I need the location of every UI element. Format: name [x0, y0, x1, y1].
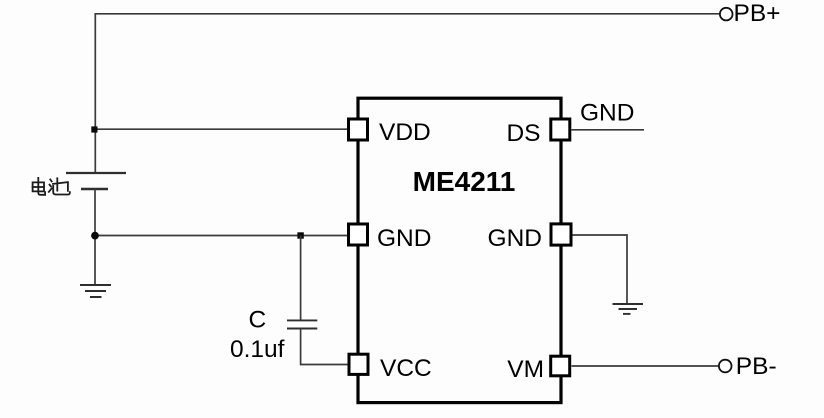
capacitor C 0.1uf plates — [287, 320, 317, 328]
svg-text:PB-: PB- — [736, 353, 777, 380]
ground symbol at right GND pin — [613, 304, 644, 314]
svg-text:VDD: VDD — [379, 119, 431, 146]
wire from capacitor to VCC pin — [301, 329, 348, 365]
wire battery - to ground — [94, 189, 96, 285]
svg-text:0.1uf: 0.1uf — [230, 336, 285, 363]
svg-text:DS: DS — [506, 120, 540, 147]
svg-text:GND: GND — [580, 100, 634, 127]
svg-text:GND: GND — [377, 225, 431, 252]
pin GND left (square pad) — [349, 224, 368, 245]
battery label 电池 (hand-drawn glyphs) — [33, 178, 70, 195]
svg-text:VCC: VCC — [380, 355, 432, 382]
terminal PB- (open circle) — [719, 360, 732, 373]
pin VM (square pad) — [551, 356, 570, 376]
wire from battery node to VDD pin — [95, 128, 347, 130]
ground symbol at battery — [80, 285, 111, 297]
wire top rail from battery+ to PB+ — [95, 13, 720, 15]
svg-text:GND: GND — [488, 225, 542, 252]
svg-text:VM: VM — [507, 356, 544, 383]
pin DS (square pad) — [551, 119, 570, 140]
wire VM pin to PB- terminal — [572, 365, 719, 367]
wire DS pin to GND stub — [572, 129, 645, 131]
node junction at capacitor tap (square dot) — [297, 232, 303, 238]
wire GND branch from battery - to GND pin — [95, 235, 347, 237]
terminal PB+ (open circle) — [720, 8, 733, 21]
svg-text:C: C — [249, 306, 267, 333]
svg-text:PB+: PB+ — [734, 0, 781, 27]
wire GND right pin to ground — [573, 235, 628, 304]
battery BT1 plate long (+) — [66, 172, 126, 174]
node junction at battery - (round dot) — [91, 232, 99, 240]
node junction at battery + / VDD (square dot) — [91, 126, 97, 132]
battery BT1 plate short (-) — [81, 188, 108, 191]
svg-text:ME4211: ME4211 — [413, 166, 516, 197]
pin VCC (square pad) — [349, 354, 368, 374]
pin VDD (square pad) — [349, 119, 368, 140]
op-amp U1 ME4211 body — [358, 98, 561, 402]
wire from GND net down to capacitor — [300, 236, 302, 321]
pin GND right (square pad) — [551, 224, 571, 245]
wire left vertical from top rail down to battery + plate — [94, 13, 96, 173]
